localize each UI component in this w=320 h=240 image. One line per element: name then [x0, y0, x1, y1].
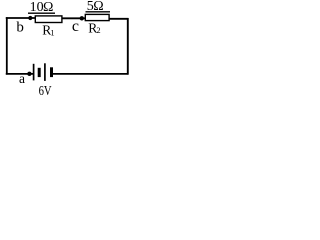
resistor R1 [35, 16, 62, 23]
svg-text:b: b [16, 19, 24, 35]
wire bottom left segment (corner to battery) [6, 73, 34, 75]
node b [28, 16, 32, 20]
label 5ohm underline [86, 11, 111, 13]
svg-text:6V: 6V [39, 84, 52, 99]
label 10ohm underline [28, 12, 55, 14]
wire top middle segment (R1 to c/R2) [62, 17, 86, 19]
svg-text:10: 10 [30, 0, 44, 15]
svg-text:2: 2 [96, 25, 100, 35]
svg-text:Ω: Ω [93, 0, 103, 14]
svg-text:1: 1 [50, 28, 54, 38]
designator label R1 [42, 22, 54, 37]
svg-text:a: a [19, 71, 25, 86]
designator label R2 [88, 20, 100, 35]
node a [27, 72, 31, 76]
node c [80, 16, 84, 20]
svg-text:Ω: Ω [43, 0, 53, 15]
value label 5 ohm for R2 [87, 0, 104, 14]
wire right vertical [127, 18, 129, 75]
battery 6V plate long 1 (positive) [33, 64, 35, 81]
battery 6V plate long 2 (positive) [44, 63, 46, 81]
wire top right segment (R2 to corner) [109, 18, 128, 20]
resistor R2 [85, 14, 109, 20]
wire bottom right segment (battery to corner) [52, 73, 129, 75]
svg-text:c: c [72, 18, 79, 35]
wire top left segment (b to R1) [6, 17, 36, 19]
value label 10 ohm for R1 [30, 0, 54, 15]
battery 6V plate short 2 (negative) [50, 67, 53, 77]
wire left vertical [6, 17, 8, 74]
battery 6V plate short 1 (negative) [38, 68, 41, 77]
